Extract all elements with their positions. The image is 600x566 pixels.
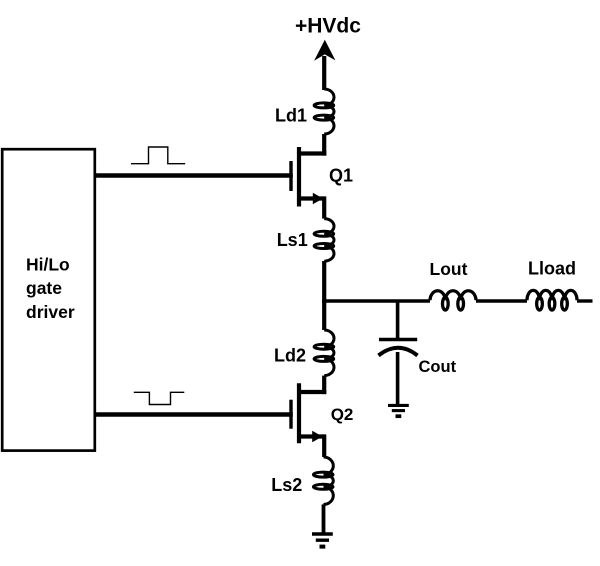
node: switch output junction / wire to Lout xyxy=(322,299,430,302)
svg-text:driver: driver xyxy=(26,302,75,322)
wire: Cout to ground xyxy=(396,352,400,405)
wire: Ld2 to Q2 drain xyxy=(322,376,326,395)
high pulse symbol xyxy=(131,147,185,164)
inductor Ld2 xyxy=(324,330,334,376)
capacitor Cout curved plate xyxy=(379,348,418,356)
wire: node down to Cout xyxy=(396,301,400,338)
transistor Q1 xyxy=(291,147,326,207)
capacitor Cout top plate xyxy=(379,338,417,342)
inductor Ls1 xyxy=(324,219,334,262)
wire: gate drive to Q1 xyxy=(94,173,293,177)
svg-text:Hi/Lo: Hi/Lo xyxy=(26,255,70,275)
Q1 source arrow xyxy=(313,193,323,205)
svg-text:Ls1: Ls1 xyxy=(277,230,308,250)
svg-text:Q1: Q1 xyxy=(329,165,353,185)
low pulse symbol xyxy=(134,392,185,404)
wire: Ls2 to ground xyxy=(322,504,326,532)
inductor Ld1 xyxy=(324,89,334,134)
inductor Ls2 xyxy=(324,457,334,504)
power arrow to +HVdc xyxy=(314,40,335,61)
ground (below Cout) xyxy=(388,404,409,407)
wire: Q2 source down to Ls2 xyxy=(322,434,326,457)
inductor Lout xyxy=(430,291,476,300)
inductor Lload xyxy=(527,290,577,300)
Hi/Lo gate driver box xyxy=(2,149,95,450)
svg-text:+HVdc: +HVdc xyxy=(295,15,361,38)
wire: Ls1 down to output node xyxy=(322,261,326,303)
wire: node down to Ld2 xyxy=(322,301,326,330)
wire: Ld1 to Q1 drain xyxy=(322,134,326,156)
wire: Q1 source down to Ls1 xyxy=(322,196,326,218)
svg-text:Lload: Lload xyxy=(528,259,576,279)
transistor Q2 xyxy=(291,383,326,443)
ground (below Ls2) xyxy=(312,532,333,535)
svg-text:Lout: Lout xyxy=(430,259,468,279)
svg-text:Q2: Q2 xyxy=(331,405,354,424)
wire: gate drive to Q2 xyxy=(94,412,293,416)
Q2 source arrow xyxy=(312,431,322,443)
wire: Lload output stub xyxy=(577,299,593,302)
svg-text:gate: gate xyxy=(26,278,62,298)
svg-text:Ls2: Ls2 xyxy=(271,475,302,495)
wire: Lout to Lload xyxy=(476,299,527,302)
svg-text:Cout: Cout xyxy=(419,358,457,376)
svg-text:Ld1: Ld1 xyxy=(275,106,307,126)
wire: +HVdc supply arrow shaft xyxy=(322,56,326,90)
svg-text:Ld2: Ld2 xyxy=(274,346,306,366)
